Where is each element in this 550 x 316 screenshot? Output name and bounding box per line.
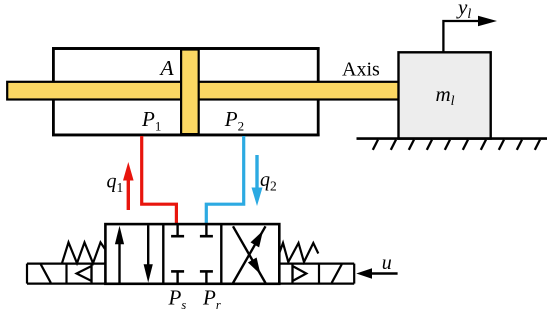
right cell crossed arrow down <box>233 226 266 283</box>
svg-text:q1: q1 <box>107 171 124 196</box>
svg-text:Pr: Pr <box>202 286 221 313</box>
middle cell blocked port bottom-left <box>176 272 178 283</box>
svg-text:A: A <box>159 56 175 80</box>
left solenoid diagonal <box>41 264 51 283</box>
middle cell blocked port top-right <box>205 224 207 235</box>
valve cell divider 2 <box>220 224 222 284</box>
valve body <box>105 224 279 284</box>
middle cell blocked port top-left <box>176 224 178 235</box>
ground line <box>357 137 548 140</box>
piston rod <box>7 82 399 100</box>
right solenoid diagonal <box>332 264 342 283</box>
svg-text:Axis: Axis <box>342 59 380 81</box>
svg-text:q2: q2 <box>260 169 277 194</box>
yl displacement arrow <box>443 21 479 52</box>
middle cell blocked port bottom-right <box>205 272 207 283</box>
svg-text:yl: yl <box>456 0 471 22</box>
valve cell divider 1 <box>162 224 164 284</box>
cylinder bottom line over piston <box>52 133 320 136</box>
left cell down arrow <box>147 225 149 267</box>
svg-text:u: u <box>382 252 392 274</box>
right solenoid box <box>279 264 354 284</box>
left spring <box>62 242 105 263</box>
blue flow arrow q2 <box>255 155 258 189</box>
mass block ml <box>399 52 491 138</box>
ground hatching <box>373 140 540 150</box>
left cell up arrow <box>118 241 120 284</box>
blue wire P2 to valve <box>206 136 243 225</box>
left solenoid triangle <box>77 266 92 281</box>
cylinder top line over piston <box>52 47 320 50</box>
red wire P1 to valve <box>142 136 177 225</box>
right cell crossed arrow up <box>233 226 266 283</box>
cylinder body <box>53 49 318 135</box>
u input arrow <box>371 272 398 274</box>
right spring <box>279 243 318 262</box>
svg-text:Ps: Ps <box>168 286 187 313</box>
red flow arrow q1 <box>127 179 130 210</box>
left solenoid box <box>27 264 105 284</box>
piston <box>181 50 199 135</box>
right solenoid triangle <box>293 266 307 281</box>
